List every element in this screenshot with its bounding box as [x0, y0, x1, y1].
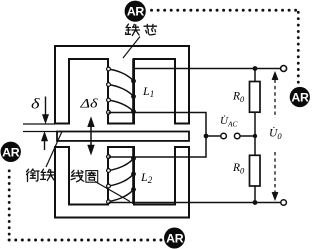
resistor R0 bottom	[250, 155, 261, 186]
svg-text:AR: AR	[127, 5, 145, 19]
terminal output top	[281, 66, 287, 72]
svg-text:Δδ: Δδ	[79, 97, 98, 111]
wire AC junction to left AC terminal	[206, 135, 221, 137]
node at AC junction	[204, 134, 209, 139]
displacement double arrow delta-delta	[88, 117, 95, 155]
wire bridge vertical	[254, 69, 256, 203]
terminal AC left	[221, 133, 227, 139]
iron core (bottom E-core)	[55, 147, 189, 218]
extension line of pole face	[23, 123, 55, 125]
wire L2 top to AC junction	[109, 136, 207, 157]
dimension delta down-arrow	[42, 97, 48, 124]
label xian-tie (armature) leader	[46, 132, 62, 168]
resistor R0 top	[250, 82, 261, 113]
output voltage U0 dashed arrow down	[272, 152, 278, 201]
label xian-tie (armature) characters	[27, 169, 40, 182]
extension line of armature top	[23, 131, 57, 133]
wire L1 bottom to AC junction	[109, 113, 207, 137]
label xian-quan (coil) characters	[71, 170, 84, 182]
wire bottom rail	[109, 202, 281, 204]
wire L1 top to bridge top node	[134, 68, 281, 70]
label xian-quan (coil) leader	[95, 182, 130, 202]
svg-text:AR: AR	[166, 232, 184, 246]
svg-text:AR: AR	[291, 91, 309, 105]
inductor L2 coil core-edge emphasis	[132, 148, 135, 204]
node bridge bottom	[253, 200, 258, 205]
armature (iron bar)	[57, 132, 189, 141]
inductor L1 coil turns	[109, 69, 134, 112]
svg-text:δ: δ	[31, 97, 40, 113]
wire right AC terminal to bridge mid node	[240, 135, 255, 137]
label tie-xin (iron core) characters	[126, 24, 140, 36]
node bridge top	[253, 66, 258, 71]
iron core (top E-core)	[55, 46, 189, 124]
terminal output bottom	[281, 200, 287, 206]
terminal AC right	[234, 133, 240, 139]
dimension delta up-arrow	[41, 132, 47, 150]
label tie-xin (iron core) leader	[123, 37, 140, 59]
inductor L1 coil core-edge emphasis	[132, 59, 135, 124]
node bridge middle	[253, 134, 257, 138]
inductor L2 coil turns	[109, 159, 134, 202]
svg-text:AR: AR	[2, 145, 20, 159]
output voltage U0 dashed arrow up	[272, 72, 278, 119]
